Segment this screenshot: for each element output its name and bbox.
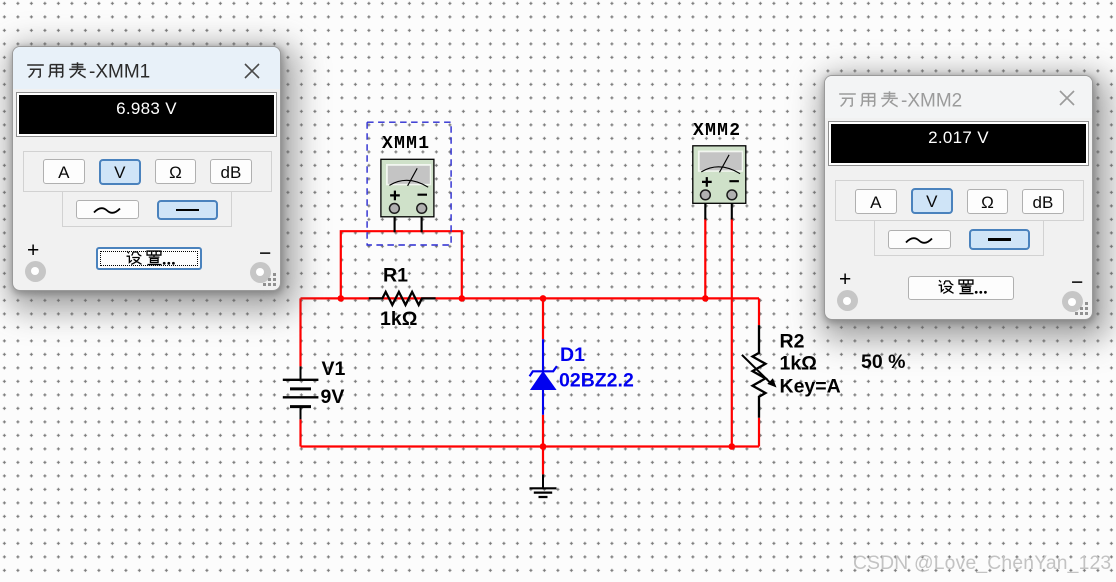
svg-text:Key=A: Key=A xyxy=(780,376,841,398)
svg-text:XMM2: XMM2 xyxy=(693,121,740,141)
wire XMM2 right lead xyxy=(731,219,733,447)
multimeter icon XMM1 xyxy=(381,159,434,217)
svg-text:D1: D1 xyxy=(560,344,585,366)
R1 refdes label xyxy=(383,265,408,287)
multimeter dialog XMM1 xyxy=(12,46,281,291)
svg-text:02BZ2.2: 02BZ2.2 xyxy=(559,370,634,392)
wire XMM2 left lead xyxy=(704,219,706,299)
XMM2 pin stubs xyxy=(705,197,732,220)
selection box around XMM1 xyxy=(367,122,451,245)
wire XMM1 loop xyxy=(341,231,462,298)
svg-text:9V: 9V xyxy=(321,386,345,408)
XMM1 pin stubs xyxy=(395,210,422,232)
battery V1 xyxy=(283,366,319,419)
R2 key label Key=A xyxy=(780,376,841,398)
svg-text:R2: R2 xyxy=(780,331,805,353)
junction node bottom-D1 xyxy=(540,443,547,450)
R2 refdes label xyxy=(780,331,805,353)
V1 refdes label xyxy=(322,358,346,380)
svg-text:-XMM1: -XMM1 xyxy=(89,61,150,82)
ground xyxy=(530,474,557,497)
svg-text:-XMM2: -XMM2 xyxy=(901,91,962,112)
junction node top-D1 xyxy=(540,295,547,302)
R1 value label 1k ohm xyxy=(380,308,417,330)
wire D1 branch red xyxy=(542,298,544,474)
svg-text:XMM1: XMM1 xyxy=(382,134,429,154)
potentiometer R2 xyxy=(742,325,777,418)
wire left branch: V1 vertical xyxy=(299,298,301,446)
wire bottom net xyxy=(301,445,760,447)
junction node top-XMM1-right xyxy=(459,295,466,302)
wire top net: V1+ to R2 top xyxy=(301,297,760,299)
V1 value label 9V xyxy=(321,386,345,408)
svg-text:1kΩ: 1kΩ xyxy=(380,308,417,330)
junction node top-XMM2 xyxy=(702,295,709,302)
junction node bottom-XMM2 xyxy=(729,443,736,450)
R2 value label 1k ohm xyxy=(780,353,817,375)
svg-text:1kΩ: 1kΩ xyxy=(780,353,817,375)
svg-text:50 %: 50 % xyxy=(861,351,905,373)
svg-text:R1: R1 xyxy=(383,265,408,287)
wire D1 blue segment xyxy=(542,339,544,414)
zener diode D1 xyxy=(530,366,557,389)
XMM2 instrument label xyxy=(693,121,740,141)
D1 value label 02BZ2.2 xyxy=(559,370,634,392)
D1 refdes label xyxy=(560,344,585,366)
resistor R1 xyxy=(369,292,436,305)
junction node top-XMM1-left xyxy=(338,295,345,302)
XMM1 instrument label xyxy=(382,134,429,154)
wire R2 branch vertical xyxy=(758,298,760,446)
R2 percent label 50 % xyxy=(861,351,905,373)
watermark CSDN @Love_ChenYan_123 xyxy=(853,553,1111,575)
multimeter dialog XMM2 xyxy=(824,75,1093,320)
svg-text:V1: V1 xyxy=(322,358,346,380)
multimeter icon XMM2 xyxy=(693,146,746,204)
